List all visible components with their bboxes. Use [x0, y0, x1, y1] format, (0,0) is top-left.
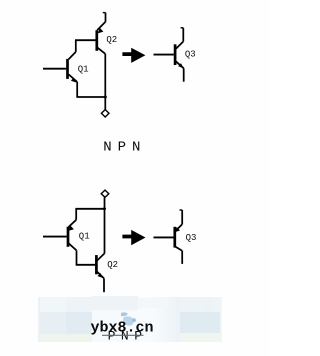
- svg-text:Q1: Q1: [79, 232, 90, 242]
- watermark band background: [38, 296, 222, 342]
- watermark logo blue blob: [121, 312, 136, 325]
- wire Q3 emitter vertical stub (top figure): [183, 68, 185, 81]
- wire bottom horizontal Q1 collector to Q2 base (bottom figure): [76, 264, 96, 266]
- Q3 base wire: [154, 236, 174, 238]
- svg-text:Q3: Q3: [185, 49, 196, 59]
- Q1 base bar: [67, 227, 70, 247]
- wire Q1 collector vertical (top figure): [75, 40, 77, 52]
- wire Q2 collector vertical down to diamond (top figure): [104, 54, 106, 110]
- Q1 emitter arrowhead: [71, 78, 76, 83]
- Q3 emitter diagonal: [176, 61, 184, 68]
- Q1 collector diagonal: [69, 52, 76, 59]
- svg-text:Q1: Q1: [78, 65, 89, 75]
- Q1 emitter arrowhead (PNP, points to bar): [68, 225, 74, 231]
- Q3 emitter arrowhead: [178, 63, 183, 68]
- Q1 base wire: [43, 236, 67, 238]
- wire stub tick (top of Q3 collector): [181, 27, 184, 29]
- Q2 emitter diagonal (upper): [97, 22, 105, 30]
- terminal diamond (bottom figure): [101, 190, 109, 197]
- wire diamond vertical down to Q2 collector (bottom figure): [104, 197, 106, 253]
- Q1 base bar: [66, 59, 69, 79]
- Q1 emitter diagonal (upper): [68, 220, 76, 227]
- node junction dot (top figure): [104, 96, 107, 99]
- Q2 emitter arrowhead: [98, 273, 103, 278]
- node junction dot (bottom figure): [103, 207, 106, 210]
- watermark strikethrough line: [102, 334, 144, 336]
- wire Q1 emitter vertical (top figure): [76, 82, 78, 97]
- svg-text:ybx8.cn: ybx8.cn: [91, 320, 154, 337]
- Q1 emitter diagonal: [69, 74, 78, 82]
- svg-text:Q3: Q3: [186, 233, 197, 243]
- Q2 collector diagonal (lower): [97, 47, 105, 53]
- wire Q3 emitter vertical stub (bottom figure): [181, 210, 183, 224]
- wire Q1 collector vertical (bottom figure): [76, 250, 78, 264]
- wire stub tick (top of Q3 emitter, bottom figure): [180, 209, 183, 211]
- wire Q2 emitter vertical stub (bottom figure): [103, 278, 105, 292]
- Q3 collector diagonal: [176, 42, 184, 49]
- Q3 emitter diagonal (upper): [176, 224, 183, 231]
- transistor Q3 (top figure, NPN equivalent): [154, 42, 184, 69]
- wire Q1 emitter vertical (bottom figure): [75, 209, 77, 220]
- Q2 base bar: [95, 255, 98, 274]
- Q2 emitter diagonal (lower): [97, 271, 104, 278]
- arrow big (top figure, implies equivalence): [122, 48, 145, 63]
- wire Q2 emitter vertical stub (top figure): [105, 13, 107, 22]
- wire Q3 collector vertical stub (bottom figure): [181, 251, 183, 264]
- transistor Q2 (top figure, PNP): [97, 22, 106, 54]
- wire top horizontal emitter node (bottom figure): [75, 208, 104, 210]
- svg-text:Q2: Q2: [107, 260, 118, 270]
- Q3 base bar: [174, 44, 177, 65]
- svg-text:Q2: Q2: [106, 35, 117, 45]
- Q2 base bar: [95, 30, 98, 51]
- wire top horizontal Q1 collector to Q2 base (top figure): [75, 39, 96, 41]
- terminal diamond (top figure): [101, 110, 109, 117]
- Q3 emitter arrowhead (PNP, points to bar): [175, 227, 180, 232]
- Q1 base wire: [43, 68, 66, 70]
- transistor Q3 (bottom figure, PNP equivalent): [154, 224, 183, 250]
- wire bottom horizontal emitter node (top figure): [76, 96, 105, 98]
- Q3 base bar: [173, 227, 176, 248]
- wire Q3 collector vertical stub (top figure): [182, 28, 184, 42]
- transistor Q1 (bottom figure, PNP): [43, 220, 77, 251]
- wire stub tick (top of Q2 emitter): [103, 12, 106, 14]
- Q2 collector diagonal (upper): [97, 253, 105, 260]
- Q2 emitter arrowhead (PNP, points to bar): [98, 28, 104, 34]
- svg-text:NPN: NPN: [103, 140, 146, 156]
- Q1 collector diagonal (lower): [69, 243, 77, 250]
- Q3 base wire: [154, 54, 174, 56]
- transistor Q2 (bottom figure, NPN): [96, 253, 104, 278]
- transistor Q1 (top figure, NPN): [43, 52, 77, 83]
- Q3 collector diagonal (lower): [176, 247, 183, 251]
- arrow big (bottom figure, implies equivalence): [122, 230, 145, 245]
